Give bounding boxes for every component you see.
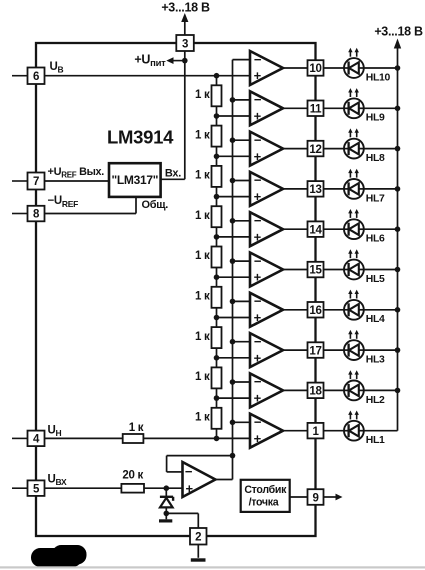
svg-text:Столбик: Столбик — [244, 484, 287, 496]
ground (pin 2) — [197, 545, 199, 558]
svg-text:1 к: 1 к — [195, 331, 210, 343]
svg-text:1 к: 1 к — [195, 250, 210, 262]
svg-text:+: + — [254, 391, 262, 406]
wire minus stub comparator U6 — [233, 260, 251, 262]
wire comparator U2 output to pin 11 — [283, 107, 308, 109]
resistor R3 1k (ladder) — [212, 166, 222, 187]
resistor R4 1k (ladder) — [212, 206, 222, 227]
LED HL1 — [324, 430, 345, 432]
pin 3 (V+) — [176, 35, 194, 51]
wire LED HL10 to +V rail — [364, 67, 398, 69]
svg-text:/точка: /точка — [249, 496, 279, 508]
wire minus stub comparator U7 — [233, 300, 251, 302]
node zener anode junction — [164, 511, 170, 517]
voltage reference block "LM317" — [109, 163, 161, 197]
comparator U9 — [250, 373, 283, 407]
wire LED HL7 to +V rail — [364, 188, 398, 190]
svg-text:9: 9 — [312, 493, 318, 505]
resistor R8 1k (ladder) — [212, 367, 222, 388]
pin 5 — [12, 487, 28, 489]
comparator U5 — [250, 212, 283, 246]
wire plus stub comparator U5 — [217, 236, 251, 238]
svg-text:+: + — [254, 229, 262, 244]
svg-text:1 к: 1 к — [195, 129, 210, 141]
wire buffer feedback loop — [167, 471, 183, 473]
wire pin 4 through 1k resistor to ladder bottom — [45, 437, 123, 439]
redaction blob (scan artifact) — [31, 548, 82, 567]
wire comparator U3 output to pin 12 — [283, 148, 308, 150]
svg-text:−: − — [254, 52, 262, 67]
svg-text:1: 1 — [312, 426, 319, 438]
svg-text:11: 11 — [310, 104, 322, 116]
comparator U4 — [250, 172, 283, 206]
svg-text:2: 2 — [195, 532, 201, 544]
pin 4 — [12, 437, 28, 439]
svg-text:+: + — [254, 109, 262, 124]
svg-text:HL4: HL4 — [366, 314, 385, 325]
pin 12 (LED cathode driver) — [308, 141, 324, 157]
comparator U8 — [250, 333, 283, 367]
LED HL9 — [324, 107, 345, 109]
wire comparator U5 output to pin 14 — [283, 228, 308, 230]
LED HL8 — [324, 148, 345, 150]
pin 6 — [12, 75, 28, 77]
ground (zener) — [165, 513, 167, 519]
LED HL5 — [324, 269, 345, 271]
wire comparator U10 output to pin 1 — [283, 430, 308, 432]
mode block Stolbik/tochka (bar/dot) — [241, 480, 290, 512]
wire LED HL6 to +V rail — [364, 228, 398, 230]
svg-text:−: − — [254, 132, 262, 147]
wire LED HL1 to +V rail — [364, 430, 398, 432]
resistor 1k (pin 4 series) — [123, 434, 144, 443]
svg-text:5: 5 — [33, 483, 40, 495]
svg-text:4: 4 — [33, 434, 40, 446]
svg-text:20 к: 20 к — [122, 469, 143, 481]
svg-text:−: − — [254, 213, 262, 228]
pin 15 (LED cathode driver) — [308, 262, 324, 278]
node junction on pin3 wire — [182, 58, 188, 64]
wire minus stub comparator U2 — [233, 99, 251, 101]
svg-text:8: 8 — [33, 209, 40, 221]
wire comparator U6 output to pin 15 — [283, 269, 308, 271]
resistor R2 1k (ladder) — [212, 126, 222, 147]
comparator U7 — [250, 293, 283, 327]
svg-text:18: 18 — [309, 386, 322, 398]
svg-text:HL6: HL6 — [366, 234, 385, 245]
svg-text:−: − — [254, 173, 262, 188]
wire pin 7 to LM317 output — [45, 180, 110, 182]
svg-text:HL3: HL3 — [366, 355, 385, 366]
wire resistor to ladder bottom and comparator U10 + input — [143, 437, 250, 439]
comparator U2 — [250, 91, 283, 125]
svg-text:1 к: 1 к — [195, 291, 210, 303]
svg-text:HL5: HL5 — [366, 274, 385, 285]
svg-text:−: − — [254, 253, 262, 268]
pin 9 (mode select) — [308, 489, 324, 505]
zener diode VD1 — [165, 488, 167, 496]
comparator U6 — [250, 253, 283, 287]
LED HL3 — [324, 349, 345, 351]
pin 10 (LED cathode driver) — [308, 60, 324, 75]
LED HL7 — [324, 188, 345, 190]
op-amp input buffer — [183, 462, 216, 497]
svg-text:15: 15 — [309, 265, 322, 277]
LED HL6 — [324, 228, 345, 230]
wire zener anode to pin 2 — [166, 512, 198, 514]
comparator U1 — [250, 51, 283, 85]
wire minus stub comparator U8 — [233, 341, 251, 343]
svg-text:+: + — [254, 431, 262, 446]
svg-text:16: 16 — [309, 305, 321, 317]
wire plus stub comparator U9 — [217, 397, 251, 399]
wire minus stub comparator U5 — [233, 220, 251, 222]
svg-text:HL10: HL10 — [366, 72, 391, 83]
LED HL10 — [324, 67, 345, 69]
LED HL2 — [324, 389, 345, 391]
svg-text:7: 7 — [33, 176, 39, 188]
node buffer output/feedback junction — [230, 453, 236, 459]
svg-text:+: + — [254, 310, 262, 325]
wire plus stub comparator U3 — [217, 155, 251, 157]
svg-text:HL2: HL2 — [366, 395, 385, 406]
svg-text:+: + — [254, 149, 262, 164]
wire LED HL8 to +V rail — [364, 148, 398, 150]
svg-text:LM3914: LM3914 — [107, 127, 174, 148]
wire pin 5 through 20k resistor to buffer + input — [45, 487, 122, 489]
wire plus stub comparator U6 — [217, 276, 251, 278]
svg-text:1 к: 1 к — [195, 371, 210, 383]
resistor R9 1k (ladder) — [212, 408, 222, 429]
comparator U3 — [250, 132, 283, 166]
svg-text:1 к: 1 к — [195, 210, 210, 222]
svg-text:Вх.: Вх. — [165, 167, 181, 179]
svg-text:6: 6 — [33, 71, 39, 83]
wire comparator U4 output to pin 13 — [283, 188, 308, 190]
svg-text:+UREF Вых.: +UREF Вых. — [48, 166, 105, 180]
wire +V LED supply rail with up arrow — [397, 46, 399, 431]
pin 16 (LED cathode driver) — [308, 302, 324, 318]
svg-text:"LM317": "LM317" — [111, 173, 158, 187]
svg-text:−: − — [254, 92, 262, 107]
wire plus stub comparator U8 — [217, 357, 251, 359]
wire LED HL3 to +V rail — [364, 349, 398, 351]
wire mode box to pin 9 — [290, 496, 308, 498]
svg-text:HL1: HL1 — [366, 435, 385, 446]
wire minus stub comparator U10 — [233, 421, 251, 423]
wire LED HL4 to +V rail — [364, 309, 398, 311]
resistor R7 1k (ladder) — [212, 327, 222, 348]
svg-text:−: − — [254, 415, 262, 430]
svg-text:1 к: 1 к — [195, 89, 210, 101]
svg-text:3: 3 — [182, 39, 188, 51]
resistor R5 1k (ladder) — [212, 247, 222, 268]
wire minus stub comparator U3 — [233, 139, 251, 141]
pin 17 (LED cathode driver) — [308, 342, 324, 358]
net label +Upit with left arrow — [173, 60, 184, 62]
resistor R1 1k (ladder) — [212, 85, 222, 106]
svg-text:HL9: HL9 — [366, 113, 385, 124]
wire buffer output to comparator minus rail — [215, 479, 232, 481]
wire comparator U1 output to pin 10 — [283, 67, 308, 69]
svg-text:−: − — [254, 374, 262, 389]
svg-text:−: − — [254, 294, 262, 309]
resistor R6 1k (ladder) — [212, 287, 222, 308]
wire comparator U9 output to pin 18 — [283, 389, 308, 391]
svg-text:+: + — [254, 350, 262, 365]
svg-text:1 к: 1 к — [195, 411, 210, 423]
wire pin 3 down to LM317 input — [184, 51, 186, 179]
svg-text:10: 10 — [309, 63, 321, 75]
svg-text:17: 17 — [309, 345, 321, 357]
svg-text:+: + — [186, 481, 194, 496]
svg-text:13: 13 — [309, 184, 321, 196]
wire LED HL2 to +V rail — [364, 389, 398, 391]
svg-text:12: 12 — [309, 144, 321, 156]
pin 1 (LED cathode driver) — [308, 423, 324, 439]
wire minus stub comparator U9 — [233, 381, 251, 383]
wire pin 9 external with right arrow — [324, 496, 338, 498]
wire supply to pin 3 with up arrow — [184, 20, 186, 35]
wire comparator U8 output to pin 17 — [283, 349, 308, 351]
ladder tap nodes — [214, 73, 220, 79]
svg-text:−: − — [254, 334, 262, 349]
wire LED HL9 to +V rail — [364, 107, 398, 109]
pin 18 (LED cathode driver) — [308, 383, 324, 399]
pin 7 — [12, 180, 28, 182]
svg-text:Общ.: Общ. — [142, 199, 169, 211]
svg-text:+: + — [254, 270, 262, 285]
LED HL4 — [324, 309, 345, 311]
svg-text:+: + — [254, 68, 262, 83]
pin 8 — [12, 213, 28, 215]
wire pin 6 to ladder top and comparator U1 + input — [45, 75, 251, 77]
svg-text:1 к: 1 к — [129, 422, 144, 434]
wire LED HL5 to +V rail — [364, 269, 398, 271]
wire plus stub comparator U4 — [217, 196, 251, 198]
svg-text:1 к: 1 к — [195, 170, 210, 182]
wire plus stub comparator U7 — [217, 317, 251, 319]
comparator U10 — [250, 414, 283, 448]
pin 14 (LED cathode driver) — [308, 221, 324, 237]
pin 2 (ground) — [190, 528, 207, 545]
svg-text:HL8: HL8 — [366, 153, 385, 164]
svg-text:+3...18 В: +3...18 В — [374, 25, 423, 39]
node zener tap on input wire — [164, 485, 170, 491]
wire minus stub comparator U4 — [233, 180, 251, 182]
page edge line (scan artifact) — [0, 566, 425, 568]
wire resistor ladder spine — [216, 76, 218, 439]
svg-text:HL7: HL7 — [366, 193, 385, 204]
svg-text:−: − — [185, 464, 193, 479]
resistor 20k (input series) — [121, 484, 144, 493]
wire comparator U7 output to pin 16 — [283, 309, 308, 311]
pin 13 (LED cathode driver) — [308, 181, 324, 197]
wire plus stub comparator U2 — [217, 115, 251, 117]
IC body outline LM3914 — [36, 43, 316, 536]
wire pin 8 to LM317 common — [45, 213, 137, 215]
wire comparator minus input rail (buffer output) — [232, 60, 234, 480]
svg-text:14: 14 — [309, 224, 322, 236]
pin 11 (LED cathode driver) — [308, 101, 324, 117]
svg-text:+: + — [254, 189, 262, 204]
svg-text:+3...18 В: +3...18 В — [161, 1, 210, 15]
